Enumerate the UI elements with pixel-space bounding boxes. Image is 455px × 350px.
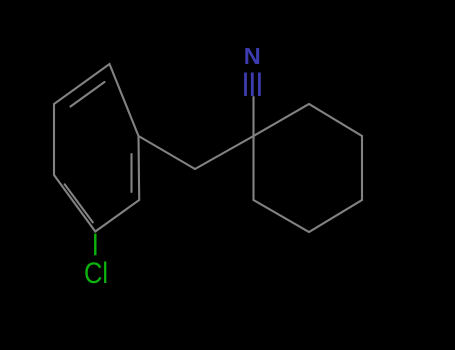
wire: bond V1 to X1 [195,136,254,169]
Cl bond [94,234,96,256]
nitrile triple bond [246,73,260,97]
wire: bond X1 to X2 [139,136,196,169]
right ring: cyclohexane [254,104,363,232]
left ring [54,64,139,232]
svg-text:Cl: Cl [84,257,108,290]
aromatic inner line e4 [130,154,132,192]
wire: nitrile C-C bond [252,97,254,136]
aromatic inner line e0 [71,82,105,107]
svg-text:N: N [244,43,261,69]
aromatic inner line e2 [65,184,93,222]
